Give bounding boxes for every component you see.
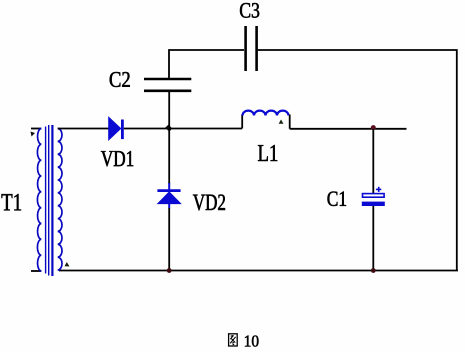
diode VD1: [109, 117, 124, 140]
capacitor C2: [144, 79, 191, 91]
transformer T1 primary top stub: [31, 128, 41, 130]
label VD1: [101, 151, 133, 166]
capacitor C1 plus sign: [376, 187, 381, 192]
wire: C2 bottom plate down to junction: [168, 92, 170, 129]
diode VD2: [157, 183, 180, 209]
junction node: main rail / C1 branch: [371, 125, 376, 130]
wire: C1 bottom plate down to bottom junction: [372, 206, 374, 271]
inductor L1 phase dot: [279, 120, 284, 124]
wire: L1 right to output end: [290, 128, 407, 130]
junction node: bottom rail / C1 branch: [371, 268, 376, 273]
transformer phase dot top-left: [31, 132, 36, 137]
wire: C3 right along top rail and down right side: [258, 50, 457, 270]
label VD2: [193, 195, 225, 211]
wire: C2 top plate up to top rail toward C3: [169, 50, 244, 79]
transformer T1 secondary winding: [58, 129, 62, 271]
wire: junction down to VD2: [168, 129, 170, 185]
wire: junction down to C1 top plate: [372, 129, 374, 194]
label C1: [328, 192, 347, 207]
label T1: [2, 194, 22, 210]
wire: VD1 cathode to L1 left riser: [124, 128, 242, 130]
transformer T1 primary winding: [37, 129, 41, 272]
caption: number 10: [245, 336, 259, 347]
inductor L1 coil: [243, 111, 289, 116]
junction node: bottom rail / VD2 branch: [167, 268, 172, 273]
inductor L1 right riser: [289, 115, 291, 129]
label C2: [110, 72, 130, 87]
inductor L1 left riser: [241, 115, 243, 129]
capacitor C1: [362, 194, 385, 206]
caption: character 图: [229, 334, 238, 346]
capacitor C3: [246, 26, 257, 71]
label L1: [258, 145, 277, 161]
wire: bottom rail: [59, 270, 458, 272]
wire: VD2 anode down to bottom junction: [168, 208, 170, 271]
junction node: main rail / C2-VD2 branch: [164, 123, 171, 131]
label C3: [240, 3, 259, 18]
transformer T1 primary bottom stub: [31, 270, 41, 272]
transformer T1 core: [46, 125, 53, 276]
transformer phase dot bottom-right: [65, 262, 70, 267]
wire: secondary top to VD1 anode: [58, 128, 109, 130]
